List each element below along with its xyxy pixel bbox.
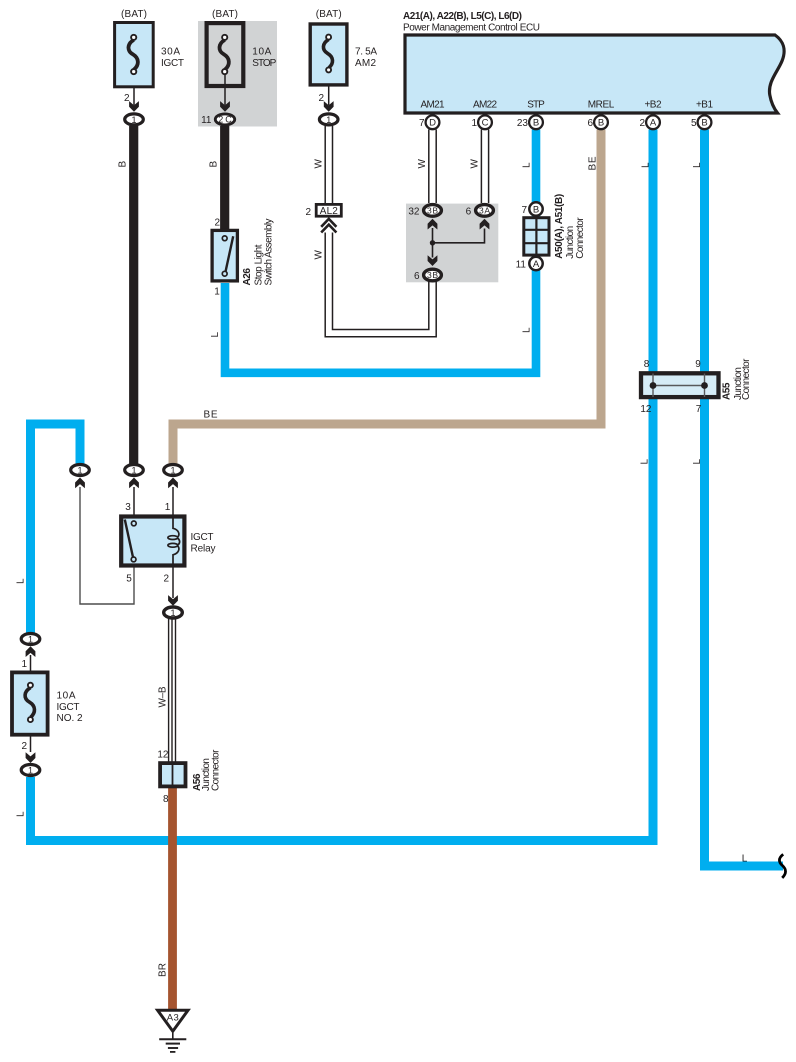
pin B circle (+B1 pin 5): [698, 115, 712, 129]
arrow into connector 1 (relay pin 5 loop): [75, 478, 85, 489]
fuse 7.5A AM2 symbol: [323, 35, 332, 73]
svg-text:B: B: [701, 118, 707, 129]
svg-text:C: C: [482, 118, 489, 129]
svg-text:L: L: [15, 811, 26, 817]
svg-text:Power Management Control ECU: Power Management Control ECU: [403, 22, 540, 33]
wire BE (MREL to IGCT relay pin 1 connector), tan: [173, 130, 601, 465]
svg-text:1: 1: [214, 287, 220, 298]
wire W (7.5A AM2 fuse to AL2), double line: [325, 126, 332, 205]
arrow into connector 1 (below 30A IGCT): [129, 101, 139, 112]
wire L (+B2 down through A55, left along bottom, up to 10A IGCT NO.2 fuse), cyan: [31, 130, 654, 841]
wire (fuse 10A STOP pin 11 stub), thin: [224, 74, 226, 105]
connector oval 1 (relay pin 1): [164, 465, 183, 476]
junction connector A55 internal wires and dots: [653, 374, 705, 398]
wire BR (A56 to ground A3), brown: [168, 788, 177, 1010]
shading behind junction ovals 3B/3A: [406, 204, 498, 283]
arrow into connector 1 (below relay pin 2): [168, 595, 178, 606]
svg-text:L: L: [639, 459, 650, 465]
wire L (+B1 down through A55 to break symbol at right), cyan: [705, 130, 784, 867]
connector oval 1 (relay pin 3): [125, 465, 144, 476]
junction oval 3A pin 6: [476, 205, 494, 217]
wire W (AL2 to junction 3B pin 6), double line: [325, 233, 436, 337]
svg-text:1: 1: [471, 118, 477, 129]
svg-text:1: 1: [326, 115, 331, 125]
svg-text:AL2: AL2: [320, 206, 338, 217]
svg-text:BR: BR: [157, 963, 168, 977]
junction connector A56 divider: [172, 764, 174, 787]
svg-text:11: 11: [201, 115, 212, 126]
value label 30A IGCT: [161, 47, 184, 69]
junction connector A55 box: [641, 373, 719, 397]
wire (10A IGCT NO.2 fuse bottom stub), thin: [30, 724, 32, 752]
arrow into connector 1 (above relay pin 3): [129, 478, 139, 489]
svg-text:W: W: [314, 250, 325, 260]
name label A55 Junction Connector: [721, 358, 752, 400]
svg-text:IGCT: IGCT: [57, 702, 80, 713]
svg-text:Connector: Connector: [210, 749, 221, 791]
svg-text:3B: 3B: [427, 205, 438, 215]
svg-text:BE: BE: [204, 410, 218, 421]
svg-text:Switch Assembly: Switch Assembly: [263, 219, 274, 286]
svg-text:A50(A), A51(B): A50(A), A51(B): [554, 194, 565, 259]
svg-text:W: W: [470, 159, 481, 169]
svg-text:B: B: [598, 118, 604, 129]
junction oval 3B pin 6: [424, 269, 442, 281]
svg-text:A21(A), A22(B), L5(C), L6(D): A21(A), A22(B), L5(C), L6(D): [403, 11, 522, 22]
svg-text:1: 1: [170, 465, 175, 475]
svg-text:8: 8: [163, 794, 169, 805]
op: ECU box A21/A22/L5/L6 Power Management Control ECU: [405, 35, 784, 113]
connector AL2 box: [316, 204, 341, 216]
junction connector A50/A51 pin B circle (pin 7): [529, 202, 542, 215]
wire B (10A STOP fuse to A26 switch pin 2), black: [220, 126, 229, 230]
svg-text:5: 5: [126, 574, 132, 585]
fuse 30A IGCT box: [115, 23, 154, 87]
connector oval 2C (10A STOP output): [215, 114, 234, 125]
fuse 10A STOP box: [207, 23, 244, 86]
svg-text:A: A: [533, 259, 540, 270]
svg-text:D: D: [429, 118, 436, 129]
svg-text:32: 32: [408, 206, 420, 217]
shield chevrons below AL2: [321, 219, 336, 233]
arrow into junction oval 3B pin 6: [428, 255, 438, 266]
svg-text:3B: 3B: [427, 270, 438, 280]
switch A26 Stop Light Switch Assembly box: [212, 230, 237, 281]
svg-text:IGCT: IGCT: [161, 58, 184, 69]
svg-text:L: L: [692, 459, 703, 465]
svg-text:10A: 10A: [252, 47, 271, 58]
value label 7.5A AM2: [355, 47, 377, 69]
junction connector A56 box: [160, 763, 185, 786]
wire B (30A IGCT fuse to IGCT relay pin 3 connector), black: [129, 126, 138, 464]
break continuation squiggle at +B1 wire end: [779, 854, 785, 878]
svg-text:1: 1: [131, 465, 136, 475]
arrow into connector 1 (above relay pin 1): [168, 478, 178, 489]
relay IGCT switch contacts: [125, 520, 136, 562]
fuse 10A IGCT NO.2 box: [12, 672, 48, 734]
wire W-B (relay pin 2 connector to A56), triple line: [169, 619, 176, 763]
svg-text:9: 9: [695, 359, 701, 370]
connector oval 1 (10A IGCT NO.2 top): [21, 634, 40, 645]
svg-text:NO. 2: NO. 2: [57, 713, 83, 724]
shading behind fuse 10A STOP: [198, 21, 277, 127]
wire L (left loop: 10A IGCT NO.2 fuse up and right to relay pin 5 connector), cyan: [31, 424, 81, 633]
wire (relay pin 3 feed), thin: [133, 487, 135, 516]
svg-text:L: L: [742, 853, 748, 864]
svg-text:7: 7: [696, 404, 702, 415]
svg-text:6: 6: [466, 206, 472, 217]
svg-text:L: L: [15, 578, 26, 584]
wire (relay pin 1 feed), thin: [172, 487, 174, 516]
wire (fuse 30A IGCT pin 2 stub), thin: [133, 74, 135, 106]
svg-text:AM22: AM22: [473, 100, 497, 111]
svg-text:1: 1: [28, 634, 33, 644]
name label A56 Junction Connector: [192, 749, 222, 791]
svg-text:L: L: [522, 162, 533, 168]
svg-text:AM21: AM21: [421, 100, 445, 111]
pin B circle (MREL pin 6): [594, 115, 608, 129]
svg-text:STOP: STOP: [252, 58, 276, 69]
name label A26 Stop Light Switch Assembly: [242, 219, 274, 286]
svg-text:3: 3: [125, 502, 131, 513]
wire W (AM21 to junction 3B pin 32), double line: [429, 130, 436, 204]
pin A circle (+B2 pin 2): [646, 115, 660, 129]
svg-text:1: 1: [165, 502, 171, 513]
svg-text:1: 1: [131, 115, 136, 125]
svg-text:2: 2: [305, 207, 311, 218]
svg-text:7: 7: [521, 205, 527, 216]
svg-text:2: 2: [318, 93, 324, 104]
svg-text:12: 12: [640, 404, 652, 415]
svg-text:(BAT): (BAT): [121, 9, 147, 20]
svg-text:7: 7: [419, 118, 425, 129]
svg-text:A: A: [650, 118, 657, 129]
svg-text:2: 2: [163, 574, 169, 585]
connector oval 1 (7.5A AM2 output): [319, 114, 338, 125]
svg-text:2: 2: [21, 741, 27, 752]
fuse 7.5A AM2 box: [310, 24, 347, 85]
wire L (STP to A26 switch pin 1), cyan: [225, 130, 536, 373]
switch A26 contacts: [222, 236, 233, 276]
svg-text:2C: 2C: [218, 115, 232, 125]
svg-text:B: B: [533, 118, 539, 129]
svg-text:23: 23: [517, 118, 529, 129]
svg-text:7. 5A: 7. 5A: [355, 47, 377, 58]
node junction dot: [430, 240, 435, 245]
svg-text:A26: A26: [242, 268, 253, 286]
svg-text:5: 5: [691, 118, 697, 129]
wire (10A IGCT NO.2 fuse top stub), thin: [30, 655, 32, 683]
fuse 10A IGCT NO.2 symbol: [25, 683, 34, 722]
ground A3 triangle: [158, 1010, 188, 1031]
value label 10A IGCT NO. 2: [57, 691, 83, 725]
svg-text:1: 1: [28, 765, 33, 775]
arrow into connector 1 (below 10A IGCT NO.2): [26, 752, 36, 763]
wire (fuse 7.5A AM2 pin 2 stub), thin: [328, 74, 330, 105]
connector oval 1 (30A IGCT output): [125, 114, 144, 125]
svg-text:10A: 10A: [57, 691, 76, 702]
arrow into connector 2C (below 10A STOP): [220, 101, 230, 112]
svg-text:Connector: Connector: [741, 358, 752, 400]
svg-text:8: 8: [644, 359, 650, 370]
relay IGCT Relay box: [121, 517, 184, 566]
svg-text:(BAT): (BAT): [316, 9, 342, 20]
svg-text:W: W: [314, 159, 325, 169]
svg-text:1: 1: [77, 465, 82, 475]
wire (relay pin 2 down to connector), thin: [172, 566, 174, 598]
svg-text:B: B: [208, 161, 219, 168]
name label IGCT Relay: [191, 532, 216, 555]
svg-text:W: W: [417, 159, 428, 169]
svg-text:A55: A55: [721, 382, 732, 400]
svg-text:W–B: W–B: [157, 686, 168, 707]
svg-text:A3: A3: [167, 1013, 179, 1024]
svg-text:3A: 3A: [479, 205, 490, 215]
junction oval 3B pin 32: [424, 205, 442, 217]
svg-text:B: B: [533, 205, 539, 216]
svg-text:12: 12: [157, 750, 169, 761]
svg-text:6: 6: [587, 118, 593, 129]
svg-text:+B1: +B1: [696, 100, 713, 111]
svg-text:11: 11: [516, 259, 527, 270]
svg-text:+B2: +B2: [645, 100, 662, 111]
relay IGCT coil: [168, 517, 180, 566]
name label A50(A), A51(B) Junction Connector: [554, 194, 586, 259]
wire W (AM22 to junction 3A pin 6), double line: [481, 130, 488, 204]
wire (junction dot to ovals 3B/3A), thin: [433, 228, 485, 258]
svg-text:2: 2: [639, 118, 645, 129]
ground stem and hatching: [159, 1033, 186, 1052]
arrow into junction oval 3A pin 6: [480, 219, 490, 230]
svg-text:Connector: Connector: [575, 217, 586, 259]
connector oval 1 (relay pin 2): [164, 607, 183, 618]
svg-text:L: L: [210, 332, 221, 338]
arrow into junction oval 3B pin 32: [428, 219, 438, 230]
arrow into connector 1 (below 7.5A AM2): [324, 101, 334, 112]
svg-text:B: B: [117, 161, 128, 168]
svg-text:MREL: MREL: [588, 100, 615, 111]
junction connector A50/A51 grid: [523, 217, 550, 256]
pin D circle (AM21 pin 7): [426, 115, 440, 129]
svg-text:L: L: [522, 327, 533, 333]
wire (relay pin 5 to connector loop), thin: [80, 487, 134, 604]
svg-text:BE: BE: [587, 156, 598, 170]
pin C circle (AM22 pin 1): [478, 115, 492, 129]
pin B circle (STP pin 23): [529, 115, 543, 129]
svg-text:2: 2: [124, 93, 130, 104]
svg-text:STP: STP: [527, 100, 545, 111]
svg-text:30A: 30A: [161, 47, 180, 58]
svg-text:Relay: Relay: [191, 544, 216, 555]
svg-text:6: 6: [414, 271, 420, 282]
junction connector A50/A51 pin A circle (pin 11): [529, 257, 542, 270]
connector oval 1 (10A IGCT NO.2 bottom): [21, 765, 40, 776]
fuse 30A IGCT symbol: [128, 35, 137, 74]
value label 10A STOP: [252, 47, 276, 69]
svg-text:1: 1: [170, 608, 175, 618]
svg-text:(BAT): (BAT): [212, 9, 238, 20]
svg-text:2: 2: [214, 218, 220, 229]
svg-text:IGCT: IGCT: [191, 532, 214, 543]
connector oval 1 (relay pin 5 loop): [71, 465, 90, 476]
svg-text:1: 1: [21, 659, 27, 670]
fuse 10A STOP symbol: [219, 35, 228, 74]
arrow into connector 1 (above 10A IGCT NO.2): [26, 646, 36, 657]
svg-text:AM2: AM2: [355, 58, 376, 69]
svg-text:L: L: [692, 162, 703, 168]
svg-text:L: L: [640, 162, 651, 168]
